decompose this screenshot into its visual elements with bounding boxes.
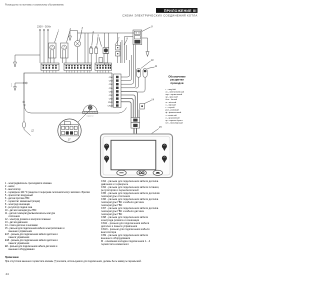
wire sensor 11 down [144, 77, 146, 89]
svg-text:Е17 - разъем для подключения к: Е17 - разъем для подключения кабеля дисп… [5, 234, 58, 236]
NTC sensor 11 [143, 67, 155, 77]
svg-text:роз - розовый: роз - розовый [166, 109, 180, 112]
svg-text:бел - белый: бел - белый [166, 98, 178, 101]
connector strip C [95, 63, 112, 71]
leader 8 [124, 40, 127, 45]
wire CN7 to display cable [121, 95, 135, 118]
wire sensor 10 down [138, 77, 140, 85]
leader 6 [100, 40, 102, 47]
svg-text:панели управления: панели управления [9, 237, 31, 239]
svg-text:3 - вентилятор: 3 - вентилятор [5, 189, 21, 191]
svg-text:9 - регулятор подачи газа: 9 - регулятор подачи газа [5, 207, 33, 209]
screen [111, 140, 156, 170]
room thermostat dome [83, 105, 98, 114]
wire connector 14 down [138, 110, 140, 118]
svg-text:230V - 50Hz: 230V - 50Hz [37, 26, 52, 29]
wire CN2 to ignition unit [121, 45, 134, 85]
leader 2 [67, 31, 71, 43]
flow switch 7 [116, 46, 121, 51]
ground arrow left [14, 62, 17, 67]
wire CN6 to display cable [121, 91, 137, 117]
ground arrow right [146, 52, 149, 57]
button icons left [104, 144, 109, 163]
bus wire [78, 32, 135, 34]
svg-text:термостат: термостат [86, 115, 93, 117]
display cable connectors E17 E18 [131, 118, 140, 123]
right legend list [166, 88, 185, 125]
svg-text:7 - термостат комнатный (опция: 7 - термостат комнатный (опция) [5, 200, 40, 203]
callout circle connector detail [58, 108, 92, 142]
fan M3 [77, 31, 79, 41]
wire CN3 up [121, 55, 132, 81]
svg-text:СХЕМА ЭЛЕКТРИЧЕСКИХ СОЕДИНЕНИЙ: СХЕМА ЭЛЕКТРИЧЕСКИХ СОЕДИНЕНИЙ КОТЛА [122, 13, 197, 17]
ignition unit 9 [133, 30, 142, 45]
svg-text:8 - электрод ионизации: 8 - электрод ионизации [5, 204, 31, 206]
svg-text:з - зелёный: з - зелёный [166, 114, 178, 117]
wire [121, 40, 123, 63]
wire N [43, 30, 45, 63]
svg-text:внешнего управления: внешнего управления [9, 231, 33, 233]
svg-text:ж - жёлтый: ж - жёлтый [166, 101, 177, 104]
svg-text:CN13: CN13 [108, 105, 114, 107]
display cable [133, 128, 135, 134]
gas valve 6 [103, 48, 109, 54]
svg-text:Е8 - разъем для подключения ка: Е8 - разъем для подключения кабеля датчи… [5, 246, 58, 248]
room thermostat wire [24, 104, 119, 114]
node 230V supply label [37, 26, 52, 29]
board ground junction [11, 82, 27, 90]
wire CN5 to ignition unit [121, 45, 136, 88]
ground arrow mid [70, 31, 78, 37]
connector marks [23, 101, 25, 106]
button icons right [162, 144, 167, 163]
pressure sensor connector 14 [140, 101, 151, 110]
title bar [156, 8, 198, 13]
svg-text:CN11: CN11 [108, 102, 114, 104]
wire to ground right [142, 38, 148, 52]
pump M2 [61, 43, 69, 58]
wire [126, 45, 128, 60]
svg-text:г - голубой: г - голубой [166, 88, 177, 91]
svg-text:10 - датчик температуры ГВС: 10 - датчик температуры ГВС [5, 210, 37, 212]
wire PE [47, 30, 49, 63]
svg-text:с - серый: с - серый [166, 106, 176, 109]
thermal cutoff switch 4 [90, 48, 93, 54]
strip pin stubs [43, 71, 108, 73]
svg-text:ф - фиолетовый: ф - фиолетовый [166, 111, 183, 114]
svg-text:б/ч - бело/чёрный: б/ч - бело/чёрный [166, 122, 184, 125]
control board [24, 73, 112, 108]
svg-text:панели управления: панели управления [9, 243, 31, 245]
svg-text:14 - плата дисплея с кнопками: 14 - плата дисплея с кнопками [5, 225, 38, 227]
leader 1 [55, 32, 59, 43]
svg-text:2 - насос: 2 - насос [5, 186, 15, 188]
svg-text:ч - чёрный: ч - чёрный [166, 103, 177, 106]
svg-text:о - оранжевый: о - оранжевый [166, 116, 181, 119]
svg-text:кч - жёлто/зелёный: кч - жёлто/зелёный [166, 90, 185, 93]
svg-text:внешнего оборудования: внешнего оборудования [9, 249, 36, 251]
wire to earth [15, 55, 40, 62]
svg-text:При отсутствии внешнего термос: При отсутствии внешнего термостата клемм… [5, 260, 142, 263]
svg-text:44: 44 [6, 272, 10, 276]
svg-text:5 - прессостат воздушный: 5 - прессостат воздушный [5, 194, 34, 197]
wire [87, 33, 89, 63]
svg-text:проводов: проводов [171, 82, 184, 85]
oval buttons [117, 170, 163, 175]
svg-text:чр - красный: чр - красный [166, 96, 179, 99]
svg-text:Руководство по монтажу и серви: Руководство по монтажу и сервисному обсл… [5, 4, 64, 6]
wire [84, 33, 86, 63]
fuse on low wire [23, 106, 25, 122]
leader 3 [80, 30, 83, 42]
wire [120, 42, 122, 63]
wire [124, 37, 126, 64]
svg-text:13 - датчик давления: 13 - датчик давления [5, 222, 28, 224]
schematic callout digits [31, 27, 162, 142]
motor M1 three-way valve [49, 43, 57, 58]
leader 9 [142, 27, 151, 32]
leader 7 [115, 40, 119, 45]
svg-text:6 - датчик протока ГВС: 6 - датчик протока ГВС [5, 198, 30, 200]
legend left column [5, 183, 90, 251]
connector strip B [64, 63, 92, 71]
wire CN11 to display cable [121, 102, 131, 118]
svg-text:4 - термореле 100 °С (защита о: 4 - термореле 100 °С (защита от перегрев… [5, 192, 90, 194]
svg-text:Е18 - разъем для подключения к: Е18 - разъем для подключения кабеля дисп… [5, 240, 58, 242]
NTC sensor 10 [137, 61, 151, 77]
svg-text:термостата комнатного: термостата комнатного [101, 243, 130, 246]
wire CN8 to display cable [121, 99, 133, 118]
right legend header [168, 74, 186, 84]
leader 5 [97, 37, 98, 46]
svg-text:15 - разъем для подключения ка: 15 - разъем для подключения кабеля элект… [5, 228, 65, 230]
display panel [101, 134, 173, 178]
leader 15 [146, 129, 159, 138]
CN labels on board edge [108, 77, 114, 107]
wire CN4 up [121, 60, 130, 77]
svg-text:Примечание: Примечание [5, 257, 20, 259]
svg-text:1 - электродвигатель трехходов: 1 - электродвигатель трехходового клапан… [5, 183, 52, 185]
board edge connector column [114, 74, 122, 108]
legend right column [101, 180, 160, 246]
svg-text:12 - электрод розжига и контро: 12 - электрод розжига и контроля пламени [5, 219, 51, 221]
connector strip A [41, 63, 59, 71]
svg-text:отопления: отопления [9, 216, 21, 218]
leader 4 [92, 34, 93, 46]
svg-text:кор - коричневый: кор - коричневый [166, 93, 183, 96]
svg-text:11 - датчик температуры/выключ: 11 - датчик температуры/выключатель конт… [5, 213, 56, 215]
air pressure switch 5 [95, 48, 98, 54]
wire L [39, 30, 41, 63]
